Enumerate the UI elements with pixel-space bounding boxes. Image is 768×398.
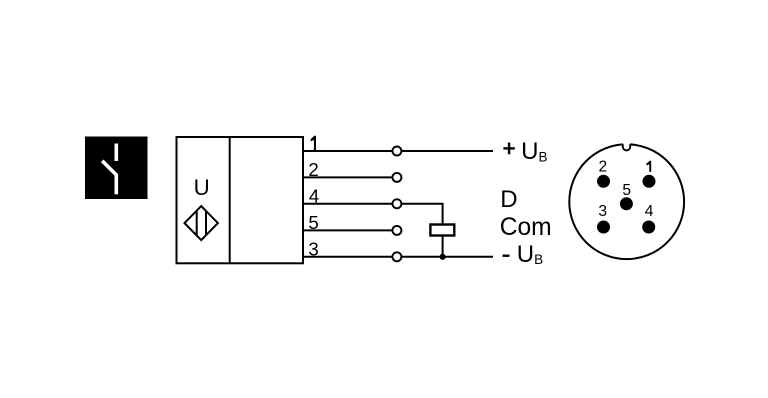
svg-text:D: D: [500, 186, 517, 213]
svg-text:U: U: [194, 175, 210, 200]
svg-text:Com: Com: [500, 214, 552, 241]
svg-text:3: 3: [308, 239, 318, 260]
svg-text:5: 5: [622, 182, 631, 199]
svg-text:4: 4: [645, 203, 654, 220]
svg-text:2: 2: [308, 159, 318, 180]
svg-text:4: 4: [309, 186, 319, 207]
svg-text:3: 3: [598, 203, 607, 220]
svg-text:2: 2: [598, 159, 607, 176]
svg-text:5: 5: [308, 212, 318, 233]
